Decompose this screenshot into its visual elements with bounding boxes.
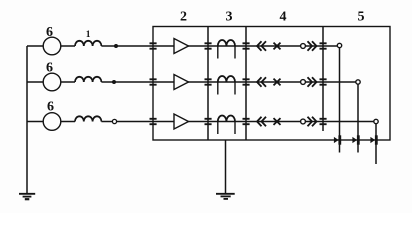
transformer coil (row1) [218, 40, 235, 46]
amplifier (row2) [174, 75, 189, 90]
crossing X (row3) [274, 118, 281, 125]
connector chevrons left (row2) [257, 77, 266, 87]
wire: tap row2 to source [27, 81, 43, 83]
capacitor plates at x=208 row2 [205, 78, 212, 80]
svg-text:6: 6 [47, 100, 54, 115]
wire: row1 source to inductor [61, 45, 75, 47]
amplifier (row1) [174, 39, 189, 54]
wire: tap row3 to source [27, 121, 43, 123]
amplifier (row3) [174, 114, 189, 129]
bus line x=323 (section 4|5 divider) [322, 27, 324, 132]
terminal circle mid (row2) [301, 80, 306, 85]
crossing X (row1) [274, 43, 281, 50]
capacitor plates at x=323 row3 [320, 118, 327, 120]
inductor 1 (row1) [75, 41, 101, 46]
transformer coil (row3) [218, 116, 235, 122]
bus line x=208 (section 2|3 divider) [207, 27, 209, 141]
wire: row3 across box [153, 121, 374, 123]
wire: row2 source to inductor [61, 81, 75, 83]
inductor (row2) [75, 77, 101, 82]
terminal circle row3 end [374, 119, 378, 123]
source 6 (row2 microphone) [43, 73, 61, 91]
bus line x=246 (section 3|4 divider) [245, 27, 247, 141]
svg-text:6: 6 [46, 61, 53, 76]
inductor (row3) [75, 116, 101, 121]
svg-text:2: 2 [180, 10, 187, 25]
wire: row1 inductor to box [101, 45, 153, 47]
terminal circle mid (row1) [301, 44, 306, 49]
capacitor plates at x=323 row2 [320, 78, 327, 80]
connector chevrons left (row3) [257, 117, 266, 127]
connector chevrons right (row1) [308, 41, 317, 51]
ground left [19, 194, 35, 199]
capacitor plates at x=208 row3 [205, 118, 212, 120]
svg-text:3: 3 [226, 10, 233, 25]
source 6 (row3 microphone) [43, 113, 61, 131]
svg-text:1: 1 [86, 30, 91, 40]
capacitor plates at x=153 row1 [150, 43, 327, 124]
source 6 (row1 microphone) [43, 37, 61, 55]
terminal circle row1 end [337, 43, 341, 47]
wire: drop from row2 terminal to patch bus [357, 84, 359, 152]
wire: ground drop from box bottom [225, 140, 227, 194]
connector chevrons right (row3) [308, 117, 317, 127]
ground middle [216, 194, 235, 199]
capacitor plates at x=246 row2 [243, 78, 250, 80]
crossing X (row2) [274, 79, 281, 86]
jack plug on bus (x=339.5) [334, 135, 340, 144]
capacitor plates at x=153 row3 [150, 118, 157, 120]
equipment box outline [153, 27, 390, 141]
wire: row3 source to inductor [61, 121, 75, 123]
connector chevrons left (row1) [257, 41, 266, 51]
svg-text:5: 5 [358, 10, 365, 25]
wire: row1 across box [153, 45, 337, 47]
jack plug on bus (x=376) [370, 135, 376, 144]
capacitor plates at x=153 row2 [150, 78, 157, 80]
jack plug on bus (x=358) [352, 135, 358, 144]
wire: drop from row3 terminal to patch bus [375, 124, 377, 164]
wire: drop from row1 terminal to patch bus [339, 48, 341, 153]
wire: row2 across box [153, 81, 356, 83]
wire: row2 inductor to box [101, 81, 153, 83]
terminal circle row3 [112, 119, 116, 123]
svg-text:4: 4 [280, 10, 287, 25]
wire: left ground bus vertical [26, 46, 28, 194]
capacitor plates at x=246 row1 [243, 42, 250, 44]
capacitor plates at x=208 row1 [205, 42, 212, 44]
connector chevrons right (row2) [308, 77, 317, 87]
svg-text:6: 6 [46, 25, 53, 40]
capacitor plates at x=323 row1 [320, 42, 327, 44]
transformer coil (row2) [218, 76, 235, 82]
junction dot row2 [112, 80, 116, 84]
wire: row3 inductor to box [101, 121, 153, 123]
capacitor plates at x=246 row3 [243, 118, 250, 120]
wire: tap row1 to source [27, 45, 43, 47]
terminal circle row2 end [356, 80, 360, 84]
junction dot row1 [114, 44, 118, 48]
terminal circle mid (row3) [301, 119, 306, 124]
